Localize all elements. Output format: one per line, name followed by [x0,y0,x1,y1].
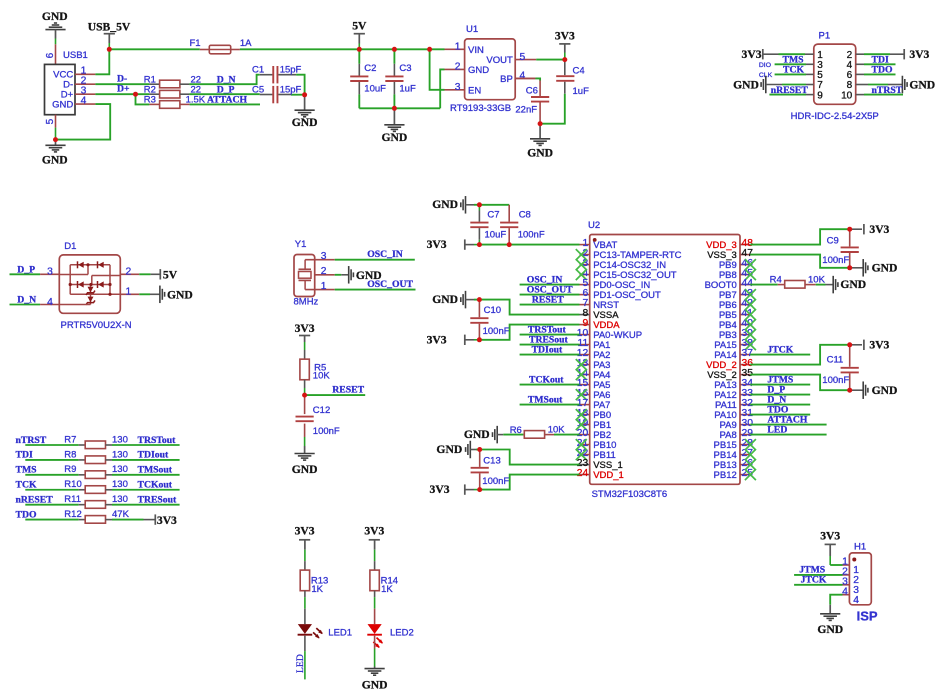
svg-text:USB_5V: USB_5V [88,20,131,33]
svg-text:U2: U2 [588,220,600,231]
svg-text:PRTR5V0U2X-N: PRTR5V0U2X-N [61,320,132,331]
svg-text:R7: R7 [64,434,76,445]
svg-text:GND: GND [872,384,898,397]
svg-text:GND: GND [840,278,866,291]
svg-text:9: 9 [817,90,823,101]
svg-text:RESET: RESET [332,384,364,395]
svg-text:PB12: PB12 [714,470,737,481]
svg-text:R6: R6 [510,425,522,436]
svg-text:22nF: 22nF [515,105,537,116]
svg-text:GND: GND [909,78,935,91]
svg-text:100nF: 100nF [822,375,849,386]
svg-text:4: 4 [81,95,87,106]
svg-text:GND: GND [42,154,68,167]
svg-text:3V3: 3V3 [909,48,929,61]
svg-text:C8: C8 [519,209,531,220]
svg-text:3V3: 3V3 [364,525,384,538]
svg-text:C12: C12 [313,405,330,416]
svg-text:GND: GND [52,100,73,111]
svg-text:10K: 10K [548,424,566,435]
svg-text:TMSout: TMSout [528,394,563,405]
svg-text:3V3: 3V3 [295,525,315,538]
svg-text:4: 4 [842,586,848,597]
svg-text:nTRST: nTRST [872,85,903,96]
svg-text:1uF: 1uF [573,86,590,97]
svg-text:D1: D1 [64,241,76,252]
svg-text:C6: C6 [526,85,538,96]
svg-text:C5: C5 [252,84,264,95]
svg-text:GND: GND [733,78,759,91]
svg-text:LED: LED [295,654,306,673]
svg-text:TDIout: TDIout [532,344,563,355]
svg-text:GND: GND [817,623,843,636]
svg-text:Y1: Y1 [295,239,307,250]
svg-text:TDO: TDO [872,65,893,76]
svg-text:R8: R8 [64,449,76,460]
svg-text:BP: BP [500,74,513,85]
svg-text:TRESout: TRESout [138,494,178,505]
svg-text:U1: U1 [466,24,478,35]
svg-text:GND: GND [167,289,193,302]
svg-text:4: 4 [853,595,859,606]
svg-text:1: 1 [455,42,461,53]
svg-text:3V3: 3V3 [430,483,450,496]
svg-text:VOUT: VOUT [486,55,513,66]
svg-text:10K: 10K [808,274,826,285]
svg-text:100nF: 100nF [482,476,509,487]
svg-text:2: 2 [126,267,132,278]
svg-text:R11: R11 [64,494,81,505]
svg-text:1uF: 1uF [399,83,416,94]
svg-text:GND: GND [362,679,388,692]
svg-text:1K: 1K [381,584,393,595]
svg-text:VIN: VIN [468,45,484,56]
svg-text:3V3: 3V3 [555,29,575,42]
svg-text:C10: C10 [484,305,501,316]
svg-text:GND: GND [42,10,68,23]
svg-text:1K: 1K [311,584,323,595]
svg-text:F1: F1 [190,38,201,49]
svg-text:R10: R10 [64,479,81,490]
svg-text:LED: LED [767,424,787,435]
svg-text:GND: GND [292,463,318,476]
svg-text:10uF: 10uF [485,230,507,241]
svg-text:2: 2 [455,62,461,73]
svg-text:5V: 5V [163,268,178,281]
svg-text:RESET: RESET [532,294,564,305]
svg-text:TRSTout: TRSTout [138,435,177,446]
svg-text:GND: GND [872,262,898,275]
svg-text:TCKout: TCKout [529,374,564,385]
svg-text:100nF: 100nF [313,426,340,437]
svg-text:130: 130 [112,494,128,505]
svg-text:RT9193-33GB: RT9193-33GB [450,103,511,114]
svg-text:GND: GND [464,428,490,441]
svg-text:3V3: 3V3 [157,514,177,527]
svg-text:C13: C13 [483,455,500,466]
svg-text:3: 3 [455,82,461,93]
svg-text:GND: GND [432,198,458,211]
svg-text:C2: C2 [364,63,376,74]
svg-text:130: 130 [112,464,128,475]
svg-text:TDIout: TDIout [138,450,169,461]
svg-text:1: 1 [321,281,327,292]
svg-text:ISP: ISP [857,608,878,623]
svg-text:TCK: TCK [783,65,804,76]
svg-text:4: 4 [47,297,53,308]
svg-text:USB1: USB1 [63,50,88,61]
svg-text:HDR-IDC-2.54-2X5P: HDR-IDC-2.54-2X5P [791,111,879,122]
svg-text:JTCK: JTCK [767,344,793,355]
svg-text:STM32F103C8T6: STM32F103C8T6 [592,489,668,500]
svg-text:R12: R12 [64,509,81,520]
svg-text:OSC_OUT: OSC_OUT [367,279,413,290]
svg-text:D+: D+ [117,84,130,95]
svg-text:10: 10 [841,90,853,101]
svg-text:3V3: 3V3 [869,223,889,236]
svg-text:GND: GND [382,131,408,144]
svg-text:3: 3 [47,267,53,278]
svg-text:15pF: 15pF [280,64,302,75]
svg-text:OSC_IN: OSC_IN [367,249,403,260]
svg-text:6: 6 [45,52,56,58]
svg-text:3V3: 3V3 [869,339,889,352]
svg-text:130: 130 [112,434,128,445]
svg-text:3V3: 3V3 [427,238,447,251]
svg-text:C1: C1 [252,64,264,75]
svg-text:C4: C4 [573,66,585,77]
svg-text:130: 130 [112,479,128,490]
svg-text:100nF: 100nF [483,326,510,337]
svg-text:R3: R3 [144,95,156,106]
svg-text:10uF: 10uF [364,83,386,94]
svg-text:47K: 47K [112,509,130,520]
svg-text:R4: R4 [770,275,782,286]
svg-text:3V3: 3V3 [427,333,447,346]
svg-text:GND: GND [292,116,318,129]
svg-text:GND: GND [436,443,462,456]
svg-text:C7: C7 [487,209,499,220]
svg-text:1: 1 [126,287,132,298]
svg-text:4: 4 [520,71,526,82]
svg-text:TCKout: TCKout [138,480,173,491]
svg-text:2: 2 [321,266,327,277]
svg-text:3V3: 3V3 [742,48,762,61]
svg-text:C11: C11 [827,354,844,365]
svg-text:5: 5 [520,52,526,63]
svg-text:100nF: 100nF [822,255,849,266]
svg-text:3: 3 [321,251,327,262]
svg-text:TMSout: TMSout [138,465,173,476]
svg-text:P1: P1 [819,30,831,41]
svg-text:C3: C3 [399,63,411,74]
svg-text:5V: 5V [352,19,367,32]
svg-text:GND: GND [527,147,553,160]
svg-text:JTCK: JTCK [801,575,827,586]
svg-text:3V3: 3V3 [820,530,840,543]
svg-text:5: 5 [45,118,56,124]
svg-text:LED2: LED2 [390,627,414,638]
svg-text:nRESET: nRESET [771,85,809,96]
svg-text:8MHz: 8MHz [294,297,319,308]
svg-text:130: 130 [112,449,128,460]
svg-text:GND: GND [432,293,458,306]
svg-text:1A: 1A [240,38,252,49]
svg-text:EN: EN [468,85,481,96]
svg-text:3V3: 3V3 [295,322,315,335]
svg-text:15pF: 15pF [280,84,302,95]
svg-text:LED1: LED1 [328,627,352,638]
svg-text:DIO: DIO [759,62,771,69]
svg-text:10K: 10K [313,370,331,381]
svg-text:100nF: 100nF [518,230,545,241]
svg-text:C9: C9 [827,235,839,246]
svg-text:R9: R9 [64,464,76,475]
svg-text:H1: H1 [854,542,866,553]
svg-text:GND: GND [468,65,489,76]
svg-text:VDD_1: VDD_1 [593,470,624,481]
